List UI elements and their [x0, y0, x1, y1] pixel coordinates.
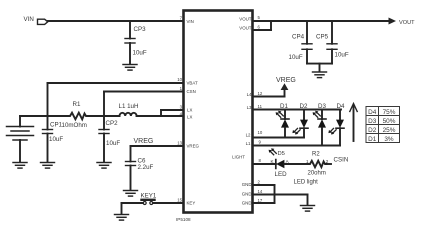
ground under C6	[124, 191, 138, 197]
svg-text:L2: L2	[246, 133, 251, 138]
switch KEY1	[122, 192, 184, 214]
svg-text:CSN: CSN	[187, 89, 196, 94]
svg-text:VOUT: VOUT	[399, 20, 415, 26]
wire rail R1 to L1	[88, 115, 120, 117]
svg-text:KEY1: KEY1	[141, 192, 157, 199]
wire LIGHT pin8	[253, 163, 276, 165]
node VOUT arrow	[389, 18, 397, 25]
svg-text:10: 10	[177, 77, 182, 82]
resistor R2 20ohm	[306, 152, 329, 177]
wire LX pin3 loop	[161, 109, 184, 111]
wire L3 pin11 LED bus	[253, 109, 342, 111]
wire L1 pin9	[253, 145, 341, 147]
svg-text:VOUT: VOUT	[239, 26, 252, 31]
svg-text:CP3: CP3	[134, 26, 147, 33]
wire VIN to IC pin7	[48, 20, 184, 22]
svg-text:VIN: VIN	[24, 16, 34, 23]
ground under CP1	[41, 163, 55, 169]
svg-text:VREG: VREG	[134, 138, 154, 145]
svg-text:IP5108: IP5108	[176, 217, 191, 222]
svg-text:10uF: 10uF	[49, 136, 63, 143]
ground under battery	[13, 163, 27, 169]
svg-text:KEY: KEY	[187, 201, 196, 206]
svg-text:R1: R1	[73, 101, 81, 108]
LED D5	[269, 148, 290, 178]
svg-text:11: 11	[258, 104, 263, 109]
table LED levels	[366, 107, 400, 143]
capacitor CP5	[316, 21, 349, 64]
svg-text:10uF: 10uF	[133, 50, 147, 57]
svg-text:15: 15	[177, 198, 182, 203]
wire GND pin17	[253, 202, 275, 204]
capacitor CP3	[125, 21, 147, 64]
svg-text:LIGHT: LIGHT	[232, 154, 245, 159]
svg-text:L4: L4	[247, 92, 252, 97]
svg-text:CP4: CP4	[292, 34, 305, 41]
wire L4 pin12	[253, 96, 285, 98]
annotation arrow up	[350, 104, 357, 142]
svg-text:LX: LX	[187, 108, 192, 113]
wire L2 pin10	[253, 137, 305, 139]
svg-text:75%: 75%	[383, 109, 396, 116]
svg-text:L3: L3	[247, 105, 252, 110]
LED D4	[328, 103, 345, 146]
pin names right inside	[232, 16, 252, 205]
svg-text:10uF: 10uF	[289, 54, 303, 61]
svg-text:10: 10	[258, 130, 263, 135]
connector J1 VIN tag	[38, 19, 48, 24]
wire VBAT pin10	[48, 82, 184, 84]
wire battery rail	[20, 115, 68, 117]
svg-text:D4: D4	[368, 109, 377, 116]
pin numbers left	[177, 16, 182, 203]
resistor R1 10mOhm	[68, 113, 88, 120]
capacitor CP2 10uF	[99, 116, 120, 162]
node VREG arrow	[276, 77, 296, 97]
svg-text:14: 14	[258, 189, 263, 194]
pin names left inside	[187, 19, 200, 206]
capacitor CP1 10uF	[43, 116, 87, 162]
svg-text:VIN: VIN	[187, 19, 194, 24]
svg-text:10mOhm: 10mOhm	[62, 122, 87, 129]
svg-text:17: 17	[258, 198, 263, 203]
svg-text:20ohm: 20ohm	[308, 170, 326, 176]
svg-text:L1 1uH: L1 1uH	[119, 103, 139, 110]
svg-text:CP2: CP2	[106, 120, 119, 127]
svg-text:GND: GND	[242, 182, 252, 187]
svg-text:VOUT: VOUT	[239, 16, 252, 21]
wire GND pin14	[253, 194, 275, 196]
svg-text:L1: L1	[246, 141, 251, 146]
svg-text:VREG: VREG	[187, 144, 200, 149]
svg-text:LED light: LED light	[294, 180, 319, 186]
svg-text:12: 12	[258, 91, 263, 96]
svg-text:10uF: 10uF	[335, 52, 349, 59]
svg-text:2.2uF: 2.2uF	[138, 164, 154, 171]
capacitor CP4	[289, 21, 313, 64]
svg-text:50%: 50%	[383, 118, 396, 125]
ground at KEY1	[115, 215, 129, 221]
wire D5 to R2	[284, 163, 308, 165]
wire CP4 CP5 join	[307, 63, 332, 65]
svg-text:D5: D5	[278, 151, 285, 157]
wire VOUT pin5	[253, 20, 390, 22]
svg-text:VREG: VREG	[276, 77, 296, 84]
ground under CP3	[123, 65, 137, 71]
svg-text:GND: GND	[242, 200, 252, 205]
inductor L1 1uH	[120, 113, 137, 116]
svg-text:VBAT: VBAT	[187, 81, 198, 86]
svg-text:3%: 3%	[384, 136, 394, 143]
svg-text:GND: GND	[242, 192, 252, 197]
ground under CP2	[97, 163, 111, 169]
svg-text:R2: R2	[312, 152, 320, 158]
svg-text:25%: 25%	[383, 127, 396, 134]
svg-text:D2: D2	[368, 127, 377, 134]
svg-text:CP5: CP5	[316, 34, 329, 41]
wire VREG pin13	[131, 145, 184, 147]
svg-text:D3: D3	[368, 118, 377, 125]
wire R2 to CSIN	[327, 163, 332, 165]
pin numbers right	[258, 15, 263, 203]
ground under CP4 CP5	[313, 72, 327, 78]
wire GND pin2	[253, 184, 275, 186]
wire rail L1 to IC pin4 LX	[137, 115, 184, 117]
capacitor C6 2.2uF	[126, 146, 154, 190]
svg-text:13: 13	[177, 141, 182, 146]
svg-text:LX: LX	[187, 114, 192, 119]
wire VOUT pin6	[253, 29, 272, 31]
op-amp U1 IC IP5108 body	[184, 11, 253, 213]
svg-text:LED: LED	[275, 171, 288, 178]
ground main	[301, 206, 315, 212]
svg-text:CSIN: CSIN	[334, 156, 349, 163]
LED D3	[313, 103, 327, 146]
wire GND join	[274, 185, 276, 203]
LED D2	[292, 103, 308, 138]
svg-text:10uF: 10uF	[106, 140, 120, 147]
wire CSN pin1	[104, 91, 184, 93]
LED D1	[276, 103, 289, 138]
battery BT1	[7, 116, 34, 162]
svg-text:D1: D1	[368, 136, 377, 143]
